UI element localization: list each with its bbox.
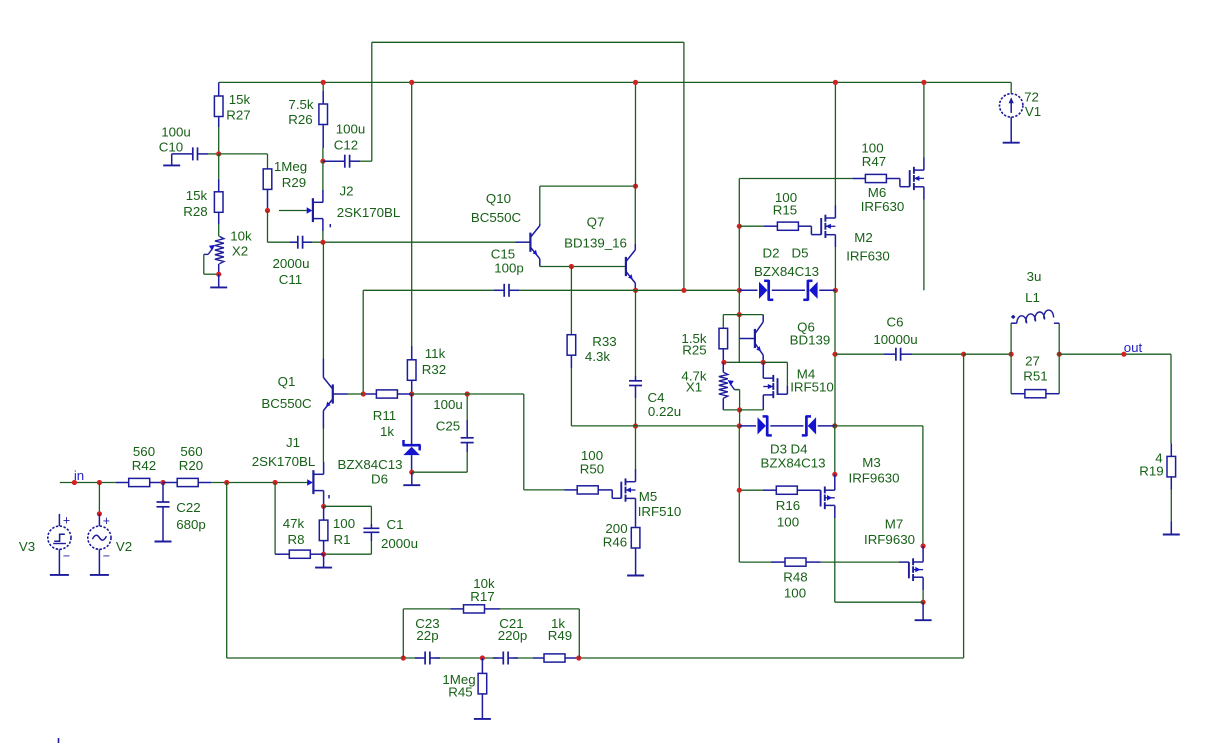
- ground below V2: [90, 549, 109, 575]
- svg-text:R48: R48: [783, 570, 807, 585]
- svg-text:3u: 3u: [1027, 269, 1042, 284]
- wire Q1 emitter down: [322, 416, 324, 462]
- wire M7 source down: [922, 577, 924, 602]
- capacitor C15: [494, 284, 519, 297]
- resistor R1: [319, 506, 328, 554]
- wire R15 left vert: [738, 179, 740, 291]
- wire R33 bottom: [571, 368, 635, 426]
- capacitor C21: [493, 652, 518, 665]
- capacitor C4: [629, 376, 642, 398]
- wire M3 vert: [834, 426, 836, 475]
- svg-text:C6: C6: [887, 315, 904, 330]
- node rail/R32: [409, 80, 414, 85]
- resistor R32: [407, 346, 416, 394]
- resistor R33: [567, 335, 576, 368]
- MOSFET M7 IRF9630: [909, 558, 923, 581]
- resistor R27: [214, 82, 223, 127]
- MOSFET M5 IRF510: [621, 478, 635, 501]
- wire R28 to X2: [218, 224, 220, 236]
- wire J1 drain: [323, 462, 325, 474]
- svg-text:0.22u: 0.22u: [648, 404, 681, 419]
- svg-text:+: +: [63, 514, 70, 528]
- capacitor C10: [172, 147, 208, 160]
- wire top loop rail: [372, 41, 684, 43]
- wire X2 bottom: [218, 264, 220, 274]
- wire M5 node to D3: [636, 425, 740, 427]
- resistor R11: [363, 390, 411, 398]
- wire R20 to J1: [211, 482, 279, 484]
- svg-text:V2: V2: [116, 539, 132, 554]
- ground at C10: [163, 154, 180, 166]
- node V2 top: [97, 480, 102, 485]
- svg-text:R33: R33: [592, 334, 616, 349]
- svg-text:100: 100: [784, 586, 806, 601]
- wire Q1 collector up: [322, 242, 324, 371]
- JFET J1 2SK170BL: [279, 470, 324, 494]
- node L1 left: [1009, 352, 1014, 357]
- resistor R47: [852, 174, 900, 182]
- node Q7 emitter: [633, 288, 638, 293]
- wire R15 row left: [739, 225, 764, 227]
- wire C25 top: [466, 394, 468, 420]
- svg-text:R11: R11: [373, 408, 396, 423]
- wire base node: [348, 393, 363, 395]
- svg-text:C4: C4: [648, 390, 665, 405]
- wire M2-M3 spine: [834, 290, 836, 426]
- zener diode D3: [758, 416, 772, 436]
- node C25 top: [465, 391, 470, 396]
- node M3 drain: [832, 472, 837, 477]
- wire feedback vert: [963, 354, 965, 658]
- ground below V3: [50, 549, 69, 575]
- svg-text:C22: C22: [176, 500, 200, 515]
- svg-text:D3: D3: [770, 442, 787, 457]
- node Q6 emitter / M4: [761, 360, 766, 365]
- svg-text:560: 560: [133, 444, 155, 459]
- svg-text:C15: C15: [491, 247, 515, 262]
- resistor R49: [533, 654, 579, 662]
- wire V+ rail: [219, 81, 1011, 83]
- wire R16 row: [739, 489, 763, 491]
- node rail/R26: [321, 80, 326, 85]
- svg-text:27: 27: [1025, 354, 1040, 369]
- svg-text:−: −: [63, 549, 70, 563]
- wire top-loop right drop: [683, 42, 685, 290]
- wire R48 row: [739, 561, 899, 563]
- wire X1 row: [723, 361, 763, 363]
- node mid rail/top loop: [681, 288, 686, 293]
- wire riser to Q6 base: [738, 315, 740, 339]
- svg-text:M5: M5: [639, 489, 657, 504]
- node in marker: [72, 480, 77, 485]
- svg-text:100u: 100u: [336, 122, 366, 137]
- svg-text:BD139: BD139: [790, 333, 831, 348]
- node D3 anode: [737, 423, 742, 428]
- svg-text:D6: D6: [371, 472, 388, 487]
- wire X1 bottom: [723, 398, 739, 410]
- svg-text:IRF510: IRF510: [638, 504, 682, 519]
- node R8 tap: [273, 480, 278, 485]
- wire input row: [60, 482, 116, 484]
- current source V1: [1000, 94, 1023, 117]
- voltage source V3: [48, 526, 71, 549]
- wire M2 source down: [834, 235, 836, 291]
- wire R48 to M7 gate: [899, 561, 909, 563]
- capacitor C23: [415, 652, 440, 665]
- wire to L1: [964, 353, 1012, 355]
- wire M5 source down: [635, 498, 637, 527]
- node R16 row: [737, 488, 742, 493]
- wire mid rail drop: [362, 290, 364, 394]
- ground below D6: [403, 472, 420, 485]
- ground below M7: [915, 602, 932, 620]
- node feedback tap: [961, 352, 966, 357]
- wire X1 top: [722, 362, 724, 372]
- svg-text:IRF630: IRF630: [846, 249, 890, 264]
- zener diode D2: [759, 280, 773, 300]
- resistor R51 loop: [1010, 354, 1012, 394]
- node M5 drain: [633, 423, 638, 428]
- resistor R50: [564, 486, 612, 494]
- svg-text:M6: M6: [868, 185, 886, 200]
- wire M5 drain up: [635, 426, 637, 482]
- potentiometer X2: [204, 236, 224, 263]
- node C21/R45: [480, 655, 485, 660]
- wire long vertical R32: [411, 82, 413, 359]
- wire C12 to top loop: [360, 160, 372, 162]
- svg-text:10000u: 10000u: [873, 332, 917, 347]
- node R15 row: [737, 224, 742, 229]
- svg-text:out: out: [1124, 340, 1143, 355]
- node emitter row / R33: [569, 264, 574, 269]
- node C22: [160, 480, 165, 485]
- resistor R46: [631, 528, 640, 549]
- node C10/R27/R28: [216, 151, 221, 156]
- inductor L1 marker: [1011, 315, 1016, 320]
- node D4/M3: [832, 423, 837, 428]
- wire mid rail left: [363, 289, 499, 291]
- resistor R25: [719, 328, 728, 362]
- wire M6 source down: [923, 187, 925, 290]
- svg-text:BC550C: BC550C: [261, 396, 312, 411]
- svg-text:V1: V1: [1025, 104, 1041, 119]
- resistor R17: [450, 605, 500, 613]
- MOSFET M2 IRF630: [821, 215, 835, 238]
- node feedback: [224, 480, 229, 485]
- svg-text:J2: J2: [339, 184, 353, 199]
- wire V+ rail to V1: [1010, 82, 1012, 93]
- node R1 bottom: [321, 552, 326, 557]
- wire R19 down: [1170, 490, 1172, 522]
- wire to R28: [218, 154, 220, 179]
- wire C1 top loop: [324, 506, 372, 524]
- wire V2 riser: [98, 483, 100, 514]
- wire D6 to C25 bottom: [412, 452, 467, 472]
- node R29/J2 gate: [265, 208, 270, 213]
- svg-text:R47: R47: [862, 154, 886, 169]
- svg-text:R49: R49: [548, 628, 572, 643]
- wire D4 to M7 branch: [835, 426, 923, 546]
- svg-text:IRF9630: IRF9630: [849, 471, 900, 486]
- svg-text:22p: 22p: [416, 628, 438, 643]
- svg-text:2000u: 2000u: [381, 536, 418, 551]
- wire wiper node to D3: [739, 410, 741, 426]
- svg-text:R42: R42: [132, 458, 156, 473]
- wire C4 bottom: [635, 398, 637, 426]
- svg-text:R28: R28: [183, 204, 207, 219]
- capacitor C1: [363, 524, 379, 541]
- svg-text:D5: D5: [792, 246, 809, 261]
- svg-text:R45: R45: [448, 685, 472, 700]
- svg-text:IRF630: IRF630: [861, 199, 905, 214]
- transistor Q10 BC550C: [515, 224, 539, 267]
- node rail/M6: [921, 80, 926, 85]
- svg-text:100p: 100p: [494, 261, 524, 276]
- svg-text:R46: R46: [603, 535, 627, 550]
- svg-text:D4: D4: [791, 442, 808, 457]
- wire out drop to R19: [1170, 354, 1172, 443]
- svg-text:R26: R26: [288, 112, 312, 127]
- resistor R29: [263, 169, 272, 211]
- wire Q10 collector up: [540, 186, 636, 224]
- wire M7 drain stub: [922, 546, 924, 562]
- MOSFET M3 IRF9630: [821, 487, 835, 510]
- wire D3-D4: [739, 425, 835, 427]
- wire Q6 collector top: [739, 314, 763, 316]
- node rail/M2: [833, 80, 838, 85]
- wire X1 wiper: [735, 390, 740, 410]
- wire M2 drain up: [834, 82, 836, 218]
- node R26/C12/J2: [320, 159, 325, 164]
- wire rail to R26: [322, 82, 324, 91]
- node Q1 base: [361, 391, 366, 396]
- wire C10 node to R29: [219, 154, 268, 169]
- svg-text:X2: X2: [232, 244, 248, 259]
- svg-text:47k: 47k: [283, 516, 305, 531]
- ground below V1: [1003, 117, 1020, 143]
- wire R50 jog to M5 gate: [612, 490, 621, 498]
- svg-text:in: in: [74, 468, 84, 483]
- svg-text:4.3k: 4.3k: [585, 349, 610, 364]
- wire D2-D5: [739, 289, 835, 291]
- svg-text:R27: R27: [226, 108, 250, 123]
- node rail/Q-collectors: [633, 80, 638, 85]
- resistor R42: [116, 478, 163, 486]
- svg-text:2SK170BL: 2SK170BL: [337, 205, 401, 220]
- node Q6 base riser: [737, 312, 742, 317]
- svg-text:BC550C: BC550C: [471, 210, 522, 225]
- wire R26 to node: [322, 148, 324, 161]
- svg-text:R20: R20: [179, 458, 203, 473]
- wire feedback drop: [226, 483, 228, 659]
- node D6 anode: [409, 470, 414, 475]
- tick mark near J2: [329, 224, 331, 227]
- svg-text:220p: 220p: [498, 628, 528, 643]
- resistor R51: [1011, 390, 1059, 398]
- wire J2 drain: [322, 161, 324, 202]
- resistor R15: [764, 222, 811, 230]
- wire bottom rail: [227, 657, 964, 659]
- wire C10 node stub: [208, 153, 219, 155]
- node V2 pin: [97, 511, 102, 516]
- ground below R45: [474, 694, 491, 719]
- node D2 anode: [737, 288, 742, 293]
- capacitor C6: [884, 348, 912, 361]
- voltage source V2: [88, 526, 111, 549]
- wire R8 drop: [274, 483, 276, 555]
- node R11/R32/D6: [409, 391, 414, 396]
- svg-text:C25: C25: [436, 419, 460, 434]
- node X2 bottom: [216, 272, 221, 277]
- svg-text:C10: C10: [159, 140, 183, 155]
- node X1 wiper: [737, 407, 742, 412]
- tick mark near J1: [328, 495, 330, 498]
- svg-text:BD139_16: BD139_16: [564, 236, 627, 251]
- node D5/M2/M6: [833, 288, 838, 293]
- svg-text:C11: C11: [279, 272, 302, 287]
- node out: [1121, 352, 1126, 357]
- wire M6 drain up: [923, 82, 925, 170]
- capacitor C25: [461, 420, 474, 452]
- transistor Q7 BD139_16: [626, 244, 635, 290]
- wire M3 drain stub: [834, 474, 836, 490]
- svg-text:15k: 15k: [229, 92, 251, 107]
- svg-text:72: 72: [1024, 90, 1039, 105]
- wire M4 drain: [762, 362, 764, 378]
- wire J1 source: [323, 491, 325, 507]
- svg-text:Q1: Q1: [278, 374, 296, 389]
- svg-text:BZX84C13: BZX84C13: [754, 264, 819, 279]
- svg-text:1Meg: 1Meg: [274, 159, 307, 174]
- wire Q7 collector up: [634, 186, 636, 244]
- wire C11 row: [268, 241, 516, 243]
- svg-text:L1: L1: [1025, 290, 1040, 305]
- svg-text:BZX84C13: BZX84C13: [337, 457, 402, 472]
- wire rail to collector node: [635, 82, 637, 186]
- transistor Q1 BC550C: [323, 371, 348, 416]
- svg-text:2SK170BL: 2SK170BL: [252, 454, 316, 469]
- node J1 source: [321, 504, 326, 509]
- wire R33 top: [570, 267, 572, 335]
- voltage source V2 pin: [98, 514, 100, 526]
- svg-text:R19: R19: [1139, 464, 1163, 479]
- svg-text:M2: M2: [854, 230, 872, 245]
- MOSFET M6 IRF630: [910, 167, 924, 190]
- svg-text:R17: R17: [470, 589, 494, 604]
- svg-text:IRF510: IRF510: [790, 380, 834, 395]
- resistor R48: [771, 558, 821, 566]
- voltage source V3 pin: [58, 514, 60, 526]
- svg-text:V3: V3: [19, 539, 35, 554]
- wire R47 row: [739, 178, 852, 180]
- node M7 source: [921, 600, 926, 605]
- svg-text:2000u: 2000u: [273, 256, 310, 271]
- resistor R26: [319, 91, 328, 148]
- svg-text:−: −: [103, 549, 110, 563]
- resistor R28: [214, 179, 223, 224]
- svg-text:J1: J1: [286, 435, 300, 450]
- resistor R45: [478, 658, 487, 694]
- svg-text:560: 560: [180, 444, 202, 459]
- svg-text:100u: 100u: [433, 397, 463, 412]
- svg-text:Q10: Q10: [486, 191, 511, 206]
- capacitor C12: [323, 155, 360, 168]
- svg-text:C12: C12: [334, 138, 358, 153]
- wire C6 row: [835, 353, 964, 355]
- wire Q10 emitter row: [540, 266, 626, 268]
- ground below R1: [315, 554, 332, 567]
- svg-text:D2: D2: [763, 246, 780, 261]
- capacitor C11: [290, 236, 312, 249]
- svg-text:100: 100: [777, 515, 799, 530]
- wire X2 wiper: [204, 254, 219, 274]
- wire D2 node down: [738, 290, 740, 314]
- wire R25 top: [723, 315, 739, 329]
- ground below X2: [210, 274, 227, 287]
- svg-text:R16: R16: [776, 498, 800, 513]
- wire mid rail right: [519, 289, 739, 291]
- wire M3 source row: [835, 601, 923, 603]
- capacitor C22: [157, 483, 170, 542]
- svg-text:X1: X1: [686, 380, 702, 395]
- wire M4 gate loop: [763, 362, 787, 394]
- resistor R20: [163, 478, 211, 486]
- wire R15 jog: [811, 226, 821, 234]
- svg-text:R15: R15: [773, 203, 797, 218]
- svg-text:100u: 100u: [161, 125, 191, 140]
- svg-text:IRF9630: IRF9630: [864, 532, 915, 547]
- svg-text:680p: 680p: [176, 517, 206, 532]
- svg-text:R1: R1: [334, 532, 351, 547]
- svg-text:M7: M7: [885, 517, 903, 532]
- node C11/J2/Q1: [320, 240, 325, 245]
- transistor Q6 BD139: [739, 315, 763, 363]
- wire D3 node down: [738, 426, 740, 562]
- wire M3 source down: [834, 506, 836, 603]
- wire top-loop left drop: [371, 42, 373, 161]
- svg-text:1k: 1k: [380, 424, 394, 439]
- svg-text:15k: 15k: [186, 188, 208, 203]
- node R49 right: [576, 655, 581, 660]
- wire M4 source: [740, 395, 764, 410]
- inductor L1: [1010, 323, 1012, 354]
- node M7 drain: [921, 543, 926, 548]
- wire J2 source: [322, 219, 324, 242]
- svg-text:R29: R29: [282, 175, 306, 190]
- svg-text:11k: 11k: [425, 346, 446, 361]
- wire R27 to C10 node: [218, 127, 220, 154]
- svg-text:BZX84C13: BZX84C13: [760, 456, 825, 471]
- node C6 left: [832, 352, 837, 357]
- svg-text:+: +: [103, 514, 110, 528]
- svg-text:100: 100: [333, 516, 355, 531]
- JFET J2 2SK170BL: [279, 198, 323, 222]
- zener diode D6 BZX84C13: [411, 394, 413, 444]
- ground bar below C22: [155, 541, 172, 543]
- wire C4 top: [635, 290, 637, 376]
- wire out row: [1059, 353, 1171, 355]
- wire R29 node down: [267, 211, 269, 243]
- node C23 left: [401, 655, 406, 660]
- MOSFET M4 IRF510: [763, 375, 777, 398]
- svg-text:R51: R51: [1023, 369, 1047, 384]
- node Q10/Q7 collectors: [633, 184, 638, 189]
- svg-text:M3: M3: [862, 455, 880, 470]
- wire riser to X1 row: [738, 339, 740, 363]
- potentiometer X1: [719, 372, 739, 398]
- svg-text:10k: 10k: [230, 229, 252, 244]
- wire R47 jog: [900, 179, 910, 187]
